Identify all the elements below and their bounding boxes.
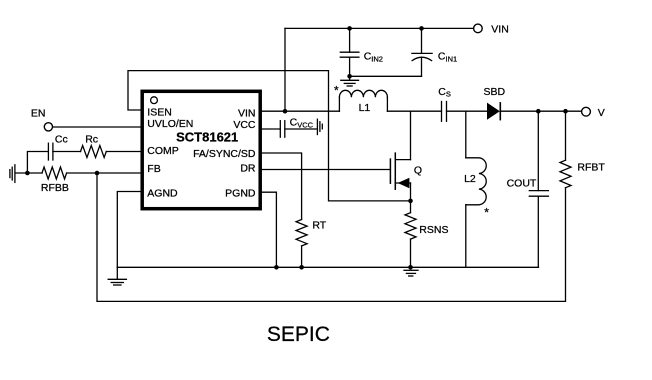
svg-text:AGND: AGND [147, 188, 178, 200]
svg-text:L1: L1 [359, 102, 371, 114]
svg-text:Rc: Rc [85, 134, 98, 146]
svg-text:DR: DR [240, 163, 256, 175]
svg-text:COMP: COMP [147, 145, 179, 157]
svg-text:VIN: VIN [238, 107, 256, 119]
svg-text:SEPIC: SEPIC [267, 323, 330, 346]
svg-text:L2: L2 [464, 173, 476, 185]
svg-text:PGND: PGND [225, 188, 256, 200]
svg-text:FA/SYNC/SD: FA/SYNC/SD [193, 148, 256, 160]
svg-text:ISEN: ISEN [147, 107, 172, 119]
svg-text:SBD: SBD [484, 86, 506, 98]
svg-text:*: * [484, 205, 489, 219]
svg-text:RSNS: RSNS [419, 224, 448, 236]
svg-text:UVLO/EN: UVLO/EN [147, 118, 193, 130]
svg-text:Cc: Cc [55, 134, 68, 146]
svg-text:SCT81621: SCT81621 [176, 130, 238, 145]
svg-text:RT: RT [312, 219, 326, 231]
svg-text:RFBT: RFBT [577, 162, 605, 174]
svg-text:FB: FB [147, 163, 160, 175]
svg-text:EN: EN [31, 108, 46, 120]
svg-text:COUT: COUT [507, 177, 537, 189]
svg-text:Q: Q [414, 164, 422, 176]
svg-text:*: * [334, 84, 339, 98]
svg-text:VIN: VIN [491, 24, 509, 36]
svg-text:V: V [598, 107, 605, 119]
svg-text:RFBB: RFBB [41, 182, 69, 194]
